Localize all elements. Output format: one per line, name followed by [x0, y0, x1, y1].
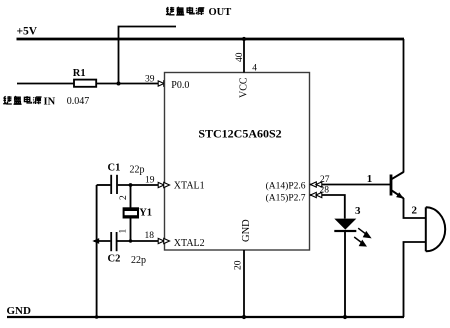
svg-text:27: 27 — [320, 175, 330, 185]
+5V power rail wire — [17, 38, 405, 41]
wire pin 28 to LED — [310, 195, 345, 219]
junction left branch on ground rail — [95, 315, 99, 319]
svg-text:STC12C5A60S2: STC12C5A60S2 — [198, 126, 281, 140]
junction at R1 output and OUT stub — [117, 82, 121, 86]
wire keyboard IN to R1 — [17, 83, 74, 85]
wire LED to ground rail — [344, 232, 346, 318]
capacitor C1 — [111, 175, 117, 194]
svg-text:1: 1 — [367, 173, 373, 185]
svg-text:GND: GND — [7, 305, 32, 317]
svg-text:IN: IN — [44, 97, 56, 108]
svg-text:3: 3 — [355, 205, 361, 217]
svg-text:C2: C2 — [108, 254, 121, 265]
node 键盘电源 OUT label — [166, 7, 231, 18]
transistor Q1 collector — [392, 172, 404, 179]
svg-text:28: 28 — [320, 186, 330, 196]
LED D3 triangle — [334, 219, 356, 230]
svg-text:R1: R1 — [73, 68, 86, 79]
wire speaker bottom to ground rail — [404, 242, 426, 317]
wire pin 27 to transistor base — [310, 184, 390, 186]
svg-text:XTAL2: XTAL2 — [174, 238, 205, 249]
svg-text:+5V: +5V — [17, 26, 38, 38]
wire C1 left — [97, 184, 111, 186]
junction VCC on +5V rail — [242, 37, 246, 41]
wire GND pin 20 — [243, 250, 245, 317]
wire C2 left with arrow — [94, 240, 110, 242]
junction crystal top on XTAL1 wire — [129, 183, 133, 187]
LED emission arrows — [354, 228, 370, 246]
junction crystal bottom on XTAL2 wire — [129, 239, 132, 242]
pin arrow XTAL2 — [158, 238, 169, 243]
svg-text:GND: GND — [241, 219, 252, 242]
LED D3 cathode bar — [334, 230, 356, 232]
ground rail wire — [7, 316, 404, 318]
svg-text:P0.0: P0.0 — [171, 80, 189, 91]
wire emitter to speaker top — [404, 198, 426, 218]
svg-text:18: 18 — [145, 231, 155, 241]
svg-text:Y1: Y1 — [139, 208, 152, 219]
svg-text:(A15)P2.7: (A15)P2.7 — [266, 193, 306, 204]
speaker/buzzer 2 body — [426, 207, 445, 251]
pin arrow XTAL1 — [158, 182, 169, 187]
svg-text:4: 4 — [252, 63, 257, 73]
svg-text:40: 40 — [235, 52, 245, 62]
svg-text:2: 2 — [119, 195, 129, 200]
crystal Y1 — [123, 207, 139, 218]
pin arrow P2.7 — [311, 192, 322, 197]
wire XTAL2 pin 18 — [117, 240, 158, 242]
wire crystal vertical — [130, 185, 132, 241]
svg-text:19: 19 — [145, 175, 155, 185]
wire collector to +5V rail — [403, 39, 405, 173]
wire VCC pin 40 — [243, 39, 245, 73]
op IC U1 STC12C5A60S2 box — [165, 73, 310, 251]
pin arrow P2.6 — [311, 182, 322, 187]
svg-text:22p: 22p — [131, 255, 146, 266]
svg-text:22p: 22p — [130, 165, 145, 176]
svg-text:(A14)P2.6: (A14)P2.6 — [266, 180, 306, 191]
svg-text:OUT: OUT — [209, 7, 232, 18]
wire left ground branch (C1/C2 common) — [96, 185, 98, 317]
arrowhead at left ground branch on C2 wire — [92, 238, 99, 244]
svg-text:0.047: 0.047 — [67, 96, 90, 107]
svg-text:20: 20 — [234, 260, 244, 270]
svg-text:2: 2 — [412, 205, 418, 217]
transistor Q1 emitter with arrow — [392, 190, 404, 198]
svg-text:C1: C1 — [108, 163, 121, 174]
junction GND pin on ground rail — [242, 315, 246, 319]
wire 键盘电源 OUT stub — [119, 27, 177, 84]
node 键盘电源 IN label — [3, 96, 55, 108]
wire XTAL1 pin 19 — [118, 184, 158, 186]
capacitor C2 — [111, 232, 116, 251]
svg-text:1: 1 — [119, 229, 129, 234]
junction LED wire on ground rail — [343, 315, 347, 319]
resistor R1 — [74, 80, 96, 87]
pin arrow P0.0 — [158, 81, 169, 86]
wire R1 to pin 39 — [96, 83, 158, 85]
svg-text:VCC: VCC — [239, 77, 250, 98]
svg-text:XTAL1: XTAL1 — [174, 180, 205, 191]
svg-text:39: 39 — [145, 74, 155, 84]
transistor Q1 base bar — [390, 175, 393, 196]
